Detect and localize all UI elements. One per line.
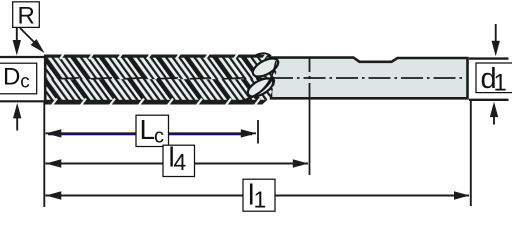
top silhouette band: [44, 55, 279, 58]
extension line l4 right: [309, 98, 311, 175]
extension line vertical left: [43, 101, 45, 207]
label box l1: [243, 179, 275, 211]
extension line top right (d1): [469, 57, 509, 59]
extension line bottom left (Dc): [0, 100, 45, 102]
d1 top arrow: [495, 24, 497, 43]
flute end loops: [238, 53, 281, 102]
extension line top left (R / Dc): [0, 56, 46, 58]
svg-text:c: c: [20, 72, 30, 93]
shank body with notch: [271, 58, 468, 99]
extension line Lc right tick: [257, 120, 259, 144]
svg-text:1: 1: [494, 70, 507, 97]
Dc top arrow: [16, 28, 18, 42]
Lc dimension line: [46, 132, 257, 134]
flute mid dashes: [58, 78, 79, 79]
extension line l1 right: [470, 99, 472, 206]
R leader diagonal arrow: [20, 28, 36, 44]
svg-text:D: D: [3, 64, 20, 91]
svg-text:4: 4: [174, 149, 187, 175]
svg-text:R: R: [18, 3, 35, 30]
svg-text:c: c: [154, 126, 164, 148]
l4 boundary dashed line in shank: [309, 58, 311, 98]
d1 bottom arrow: [493, 110, 495, 125]
centerline: [271, 77, 466, 79]
flute section base: [44, 54, 279, 106]
svg-text:L: L: [140, 114, 156, 145]
l4 dimension line: [46, 163, 309, 165]
Lc blue underline: [48, 134, 252, 136]
svg-text:1: 1: [254, 187, 267, 213]
label box R: [13, 2, 40, 28]
extension line bottom right (d1): [469, 99, 509, 101]
label box Dc: [0, 63, 37, 94]
Dc bottom arrow: [16, 116, 18, 131]
label box d1: [476, 63, 512, 93]
l1 dimension line: [46, 195, 470, 197]
cutter left edge: [44, 55, 47, 104]
label box l4: [163, 145, 195, 176]
label box Lc: [136, 115, 169, 146]
bottom silhouette band: [44, 100, 279, 105]
